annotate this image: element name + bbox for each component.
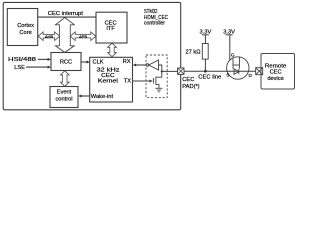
svg-text:3.3V: 3.3V [223, 30, 235, 36]
svg-text:Wake-int: Wake-int [91, 94, 114, 100]
svg-text:PAD(*): PAD(*) [182, 84, 199, 90]
svg-text:CLK: CLK [93, 60, 104, 66]
svg-text:device: device [267, 76, 283, 82]
svg-text:CEC interrupt: CEC interrupt [48, 11, 83, 17]
svg-text:control: control [55, 96, 72, 102]
svg-text:CEC: CEC [182, 77, 194, 83]
svg-text:CEC line: CEC line [198, 74, 221, 80]
svg-text:D: D [249, 73, 253, 79]
svg-text:RX: RX [123, 59, 131, 65]
svg-text:G: G [231, 52, 235, 58]
svg-text:3.3V: 3.3V [200, 30, 212, 36]
svg-text:ITF: ITF [106, 26, 115, 32]
svg-text:HSI/488: HSI/488 [8, 57, 36, 63]
svg-text:LSE: LSE [14, 65, 25, 71]
svg-text:AHB: AHB [45, 34, 54, 39]
svg-text:TX: TX [124, 78, 131, 84]
svg-text:Core: Core [19, 30, 31, 36]
svg-text:CEC: CEC [270, 70, 282, 76]
svg-text:Kernel: Kernel [98, 78, 118, 84]
svg-text:APB: APB [79, 34, 87, 39]
svg-text:27 kΩ: 27 kΩ [186, 49, 201, 55]
svg-text:Event: Event [57, 90, 72, 96]
svg-text:controller: controller [144, 21, 165, 27]
svg-text:Cortex: Cortex [17, 23, 34, 29]
svg-text:Remote: Remote [265, 63, 287, 69]
svg-text:S: S [226, 73, 229, 79]
svg-text:RCC: RCC [60, 60, 72, 66]
